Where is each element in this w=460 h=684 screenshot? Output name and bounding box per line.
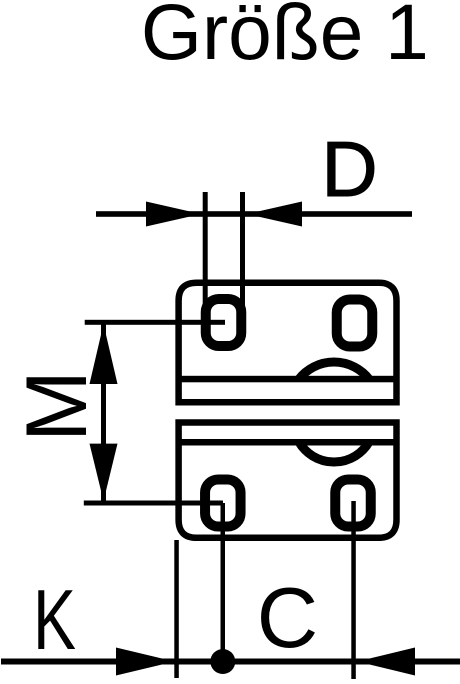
svg-text:K: K	[33, 573, 76, 668]
svg-text:C: C	[257, 571, 318, 666]
svg-text:Größe 1: Größe 1	[141, 0, 429, 76]
svg-text:D: D	[321, 125, 377, 213]
svg-text:M: M	[9, 370, 105, 442]
